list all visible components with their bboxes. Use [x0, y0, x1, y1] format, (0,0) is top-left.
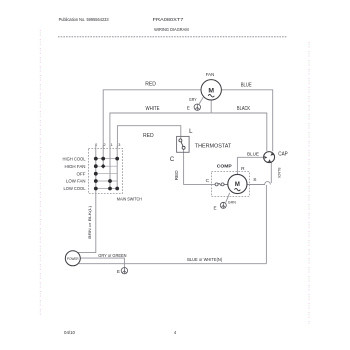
switch row lines	[96, 159, 117, 189]
label C (comp)	[206, 178, 210, 184]
svg-text:POWER: POWER	[67, 257, 79, 261]
svg-text:S: S	[253, 177, 256, 183]
svg-text:MAIN SWITCH: MAIN SWITCH	[117, 196, 142, 201]
wire BLACK (fan junction to cap)	[211, 113, 267, 151]
svg-text:LOW FAN: LOW FAN	[66, 179, 86, 184]
svg-text:COMP: COMP	[217, 163, 233, 169]
footer date 04/10	[64, 330, 76, 335]
header title WIRING DIAGRAM	[154, 27, 189, 32]
wire comp R up	[236, 157, 238, 174]
label R	[241, 166, 245, 172]
svg-text:E: E	[187, 105, 190, 110]
label WHITE	[146, 106, 160, 112]
switch column lines	[96, 148, 117, 193]
svg-text:M: M	[235, 182, 240, 188]
label BLACK rotated (cap to S)	[277, 168, 281, 179]
wire power L up to main switch	[78, 194, 96, 253]
compressor COMP box	[211, 163, 249, 196]
label GRY or GREEN	[98, 253, 126, 258]
label L (thermostat)	[189, 129, 193, 135]
svg-text:RED: RED	[143, 133, 154, 139]
wires: default style	[78, 90, 273, 268]
svg-text:R: R	[241, 166, 245, 172]
svg-text:RED: RED	[174, 170, 179, 180]
svg-text:BLUE or WHITE(N): BLUE or WHITE(N)	[187, 257, 222, 262]
svg-text:Publication No. 5995564233: Publication No. 5995564233	[59, 17, 110, 22]
label BLUE (fan)	[241, 83, 252, 89]
label BLACK	[237, 106, 250, 112]
header publication number	[59, 17, 110, 22]
switch column stubs and terminal labels 0 2 1 3	[96, 146, 117, 149]
fan earth symbol E	[187, 97, 201, 111]
wire BLUE (fan to right rail)	[222, 90, 273, 152]
svg-text:C: C	[206, 178, 210, 184]
svg-text:1: 1	[111, 143, 113, 147]
svg-text:FRA080XT7: FRA080XT7	[153, 17, 185, 22]
svg-text:OFF: OFF	[77, 171, 86, 176]
comp earth symbol E	[213, 199, 235, 210]
switch contact dots	[94, 157, 119, 191]
wire BLUE comp R to cap	[237, 156, 264, 158]
fan motor FAN	[201, 72, 221, 100]
svg-text:WHITE: WHITE	[146, 106, 160, 112]
main switch box	[88, 148, 122, 193]
svg-text:GRY or GREEN: GRY or GREEN	[98, 253, 126, 258]
fan earth wire	[199, 97, 203, 104]
power supply POWER	[65, 251, 80, 266]
svg-text:BRN or BLK(L): BRN or BLK(L)	[87, 205, 92, 239]
svg-text:0: 0	[95, 143, 97, 147]
svg-text:BLUE: BLUE	[241, 83, 252, 89]
svg-text:M: M	[208, 87, 214, 94]
svg-text:GRY: GRY	[189, 97, 197, 102]
switch row labels	[63, 156, 87, 191]
label RED rotated (thermostat to comp)	[174, 170, 179, 180]
svg-text:E: E	[213, 205, 216, 210]
svg-text:THERMOSTAT: THERMOSTAT	[195, 144, 232, 150]
wire cap bottom to S junction	[270, 162, 272, 183]
thermostat	[177, 136, 190, 152]
power earth symbol E	[117, 268, 128, 274]
svg-text:BLACK: BLACK	[277, 168, 281, 179]
wire power earth (GRY or GREEN)	[80, 258, 124, 267]
wire RED high (switch 2 to fan)	[103, 90, 201, 149]
svg-text:3: 3	[118, 143, 120, 147]
left scan speckle column	[39, 30, 41, 316]
svg-text:C: C	[170, 157, 175, 163]
svg-text:BLUE: BLUE	[247, 151, 259, 156]
footer page number 4	[174, 330, 177, 335]
svg-text:HIGH COOL: HIGH COOL	[63, 156, 87, 161]
label MAIN SWITCH	[117, 196, 142, 201]
wire neutral right rail down	[265, 185, 267, 264]
label RED (top wire)	[145, 82, 156, 88]
compressor motor M	[228, 174, 247, 193]
svg-text:BLACK: BLACK	[237, 106, 250, 112]
wire fan bottom stub	[210, 100, 212, 113]
svg-text:GRN: GRN	[228, 199, 236, 204]
svg-text:HIGH FAN: HIGH FAN	[65, 164, 86, 169]
svg-text:2: 2	[104, 143, 106, 147]
wire comp S with hop	[247, 182, 270, 185]
label BLUE or WHITE(N)	[187, 257, 222, 262]
label BRN or BLK(L) rotated	[87, 205, 92, 239]
right scan speckle column	[308, 42, 310, 324]
wire neutral bottom (BLUE or WHITE N)	[79, 263, 266, 265]
svg-text:RED: RED	[145, 82, 156, 88]
label BLUE (comp to cap)	[247, 151, 259, 156]
svg-text:WIRING DIAGRAM: WIRING DIAGRAM	[154, 27, 189, 32]
capacitor CAP	[264, 151, 289, 162]
overload protector	[215, 183, 228, 186]
wire thermostat C to comp C	[184, 149, 215, 184]
comp earth wire	[226, 193, 230, 203]
header underline	[58, 36, 287, 38]
header model number	[153, 17, 185, 22]
label THERMOSTAT	[195, 144, 232, 150]
svg-text:CAP: CAP	[278, 151, 288, 157]
label S	[253, 177, 256, 183]
wire RED low (switch 3 to thermostat L)	[117, 126, 180, 149]
svg-text:FAN: FAN	[206, 72, 215, 78]
wire WHITE (switch 1 to fan bottom junction)	[110, 113, 211, 149]
svg-text:04/10: 04/10	[64, 330, 76, 335]
label C (thermostat)	[170, 157, 175, 163]
svg-text:LOW COOL: LOW COOL	[64, 186, 87, 191]
svg-text:E: E	[117, 269, 120, 274]
label RED (lower wire)	[143, 133, 154, 139]
